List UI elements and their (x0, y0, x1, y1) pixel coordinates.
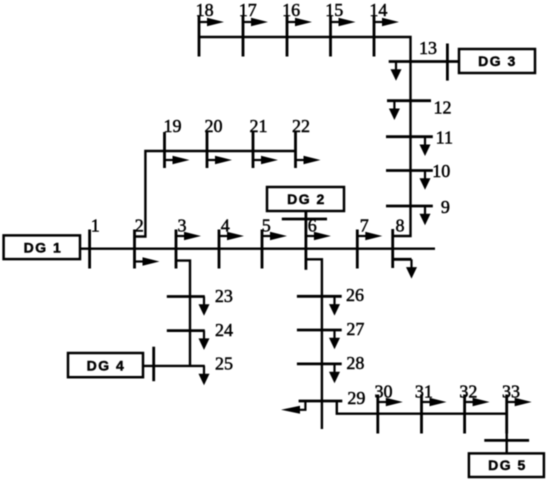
svg-text:32: 32 (459, 382, 477, 402)
svg-text:DG 5: DG 5 (488, 457, 527, 473)
load arrow bus 19 (165, 156, 190, 164)
load arrow bus 11 (420, 137, 431, 156)
bus 10 bar (386, 169, 433, 172)
load arrow bus 20 (207, 156, 232, 164)
load arrow bus 33 (507, 398, 532, 406)
load arrow bus 27 (329, 330, 340, 349)
bus 3 bar (175, 230, 178, 269)
DG4 box (68, 353, 143, 377)
bus 16 bar (286, 16, 289, 57)
DG3 box (459, 49, 535, 73)
load arrow bus 7 (357, 232, 382, 240)
svg-text:26: 26 (346, 285, 364, 305)
DG4 bus bar (152, 347, 155, 382)
wire bus 2 up to branch 19-22 (135, 151, 296, 237)
DG5 bus bar (484, 439, 529, 442)
svg-text:31: 31 (415, 382, 433, 402)
svg-text:DG 4: DG 4 (87, 357, 126, 373)
bus 23 bar (167, 295, 205, 298)
svg-text:16: 16 (282, 0, 300, 20)
bus 31 bar (420, 395, 423, 434)
svg-text:2: 2 (135, 215, 144, 235)
DG2 box (267, 187, 344, 211)
svg-text:15: 15 (325, 0, 343, 20)
load arrow bus 14 (374, 18, 399, 26)
bus 12 bar (387, 99, 431, 102)
wire main feeder buses 1-8 (80, 247, 435, 249)
load arrow bus 17 (243, 18, 268, 26)
load arrow bus 12 (389, 101, 400, 120)
load arrow bus 21 (253, 156, 278, 164)
bus 29 bar (299, 400, 343, 403)
svg-text:20: 20 (205, 116, 223, 136)
bus 11 bar (386, 135, 433, 138)
svg-text:6: 6 (308, 215, 317, 235)
bus 1 bar (88, 230, 91, 269)
svg-text:3: 3 (178, 215, 187, 235)
svg-text:33: 33 (502, 382, 520, 402)
DG2 bus bar (282, 218, 327, 221)
load arrow bus 10 (420, 171, 431, 190)
wire bus 33 down to DG5 (506, 414, 508, 454)
svg-text:8: 8 (396, 216, 405, 236)
bus 28 bar (297, 362, 342, 365)
svg-text:5: 5 (262, 215, 271, 235)
load arrow bus 24 (199, 331, 210, 350)
bus 14 bar (373, 16, 376, 57)
svg-text:23: 23 (215, 286, 233, 306)
load arrow bus 16 (287, 18, 312, 26)
wire DG4 to bus 25 (143, 365, 205, 367)
load arrow bus 22 (296, 156, 321, 164)
load arrow bus 9 (420, 206, 431, 225)
bus 17 bar (242, 16, 245, 57)
svg-text:29: 29 (347, 388, 365, 408)
bus 2 bar (133, 230, 136, 269)
bus 18 bar (198, 16, 201, 57)
bus 8 bar (391, 229, 394, 268)
svg-text:24: 24 (215, 320, 233, 340)
svg-text:17: 17 (239, 0, 257, 20)
svg-text:14: 14 (369, 0, 387, 20)
DG5 box (469, 453, 544, 477)
load arrow bus 15 (331, 18, 356, 26)
DG1 box (4, 235, 80, 259)
bus 5 bar (261, 230, 264, 269)
svg-text:30: 30 (375, 382, 393, 402)
bus 20 bar (206, 132, 209, 168)
svg-text:22: 22 (292, 116, 310, 136)
bus 15 bar (329, 16, 332, 57)
svg-text:12: 12 (434, 98, 452, 118)
load arrow bus 30 (378, 398, 403, 406)
wire top branch feeder with corner down to bus 8 (199, 37, 411, 236)
bus 19 bar (163, 132, 166, 168)
load arrow bus 4 (219, 232, 244, 240)
load arrow bus 2 (135, 257, 160, 265)
wire bus 3 down to branch 23-25 (176, 261, 190, 366)
bus 9 bar (386, 205, 433, 208)
load arrow bus 31 (422, 398, 447, 406)
svg-text:27: 27 (346, 319, 364, 339)
load arrow bus 3 (176, 232, 201, 240)
bus 27 bar (297, 329, 342, 332)
svg-text:25: 25 (215, 354, 233, 374)
DG3 bus bar (446, 44, 449, 81)
bus 22 bar (294, 132, 297, 168)
svg-text:4: 4 (221, 215, 230, 235)
wire bus 29 step to branch 30-33 (337, 401, 508, 414)
load arrow bus 8 (406, 259, 417, 278)
svg-text:DG 2: DG 2 (287, 191, 326, 207)
bus 4 bar (218, 230, 221, 269)
bus 13 bar (389, 60, 431, 63)
bus 21 bar (252, 132, 255, 168)
svg-text:DG 3: DG 3 (478, 53, 517, 69)
load arrow bus 23 (199, 297, 210, 316)
svg-text:10: 10 (432, 161, 450, 181)
bus 24 bar (167, 329, 205, 332)
DG3 connector wire (431, 60, 459, 63)
svg-text:13: 13 (419, 38, 437, 58)
bus 32 bar (463, 395, 466, 434)
load arrow bus 18 (199, 18, 224, 26)
bus 30 bar (376, 395, 379, 434)
svg-text:18: 18 (196, 0, 214, 20)
load arrow bus 5 (262, 232, 287, 240)
load arrow bus 32 (465, 398, 490, 406)
svg-text:DG 1: DG 1 (24, 240, 63, 256)
load arrow bus 13 (391, 62, 402, 81)
load arrow bus 6 (306, 232, 331, 240)
load arrow bus 25 (199, 366, 210, 385)
svg-text:9: 9 (441, 197, 450, 217)
bus 8 load stub (393, 258, 412, 261)
wire bus 6 down to branch 26-29 (306, 259, 322, 429)
svg-text:11: 11 (436, 128, 453, 148)
bus 33 bar (505, 395, 508, 434)
svg-text:28: 28 (346, 353, 364, 373)
load arrow bus 26 (329, 296, 340, 315)
svg-text:1: 1 (91, 215, 100, 235)
svg-text:21: 21 (250, 116, 268, 136)
bus 26 bar (297, 295, 342, 298)
load arrow bus 29 left (300, 400, 307, 411)
bus 7 bar (356, 230, 359, 269)
svg-text:19: 19 (164, 116, 182, 136)
svg-text:7: 7 (360, 216, 369, 236)
load arrow bus 28 (329, 364, 340, 383)
bus 6 bar with DG2 riser (304, 211, 307, 270)
